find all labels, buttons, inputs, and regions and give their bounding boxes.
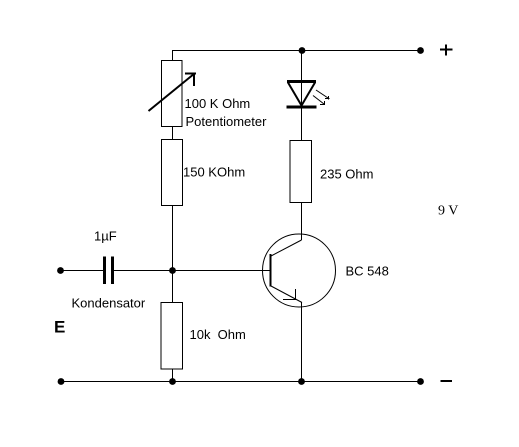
node junction 10k to bottom rail (169, 378, 176, 385)
svg-text:235 Ohm: 235 Ohm (320, 167, 373, 182)
potentiometer R1 wiper arrow (149, 74, 197, 112)
LED light arrow 2 (313, 96, 325, 105)
LED light arrow 1 (316, 90, 330, 100)
capacitor C1 left plate (103, 257, 106, 285)
transistor Q1 emitter arrowhead (283, 289, 296, 300)
wire potentiometer top stub (172, 51, 174, 62)
transistor Q1 collector stroke (271, 240, 302, 256)
transistor Q1 base bar (270, 254, 272, 287)
wire node B to 10k resistor (172, 270, 174, 303)
svg-text:Kondensator: Kondensator (72, 296, 146, 311)
svg-text:150 KOhm: 150 KOhm (183, 165, 245, 180)
wire 235 Ohm resistor to collector (301, 203, 303, 241)
potentiometer R1 100K body (162, 61, 183, 127)
wire LED branch from top rail (301, 51, 303, 109)
node bottom-left terminal (58, 378, 65, 385)
LED D1 anode bar (287, 80, 316, 83)
wire 10k resistor to bottom rail (172, 369, 174, 382)
node - terminal (417, 378, 424, 385)
svg-text:E: E (54, 318, 65, 337)
wire emitter to bottom rail (301, 302, 303, 382)
label 100 K Ohm Potentiometer (185, 96, 268, 129)
svg-text:Potentiometer: Potentiometer (186, 114, 268, 129)
svg-text:BC 548: BC 548 (346, 264, 389, 279)
wire top supply rail (172, 50, 421, 52)
svg-text:100 K Ohm: 100 K Ohm (185, 96, 251, 111)
wire potentiometer to 150K resistor (172, 126, 174, 140)
node junction top rail to LED (299, 47, 306, 54)
transistor Q1 BC548 body circle (263, 234, 336, 307)
node + terminal (417, 47, 424, 54)
plus symbol + supply (440, 44, 452, 55)
LED D1 triangle sides (288, 83, 315, 106)
LED D1 cathode bar (287, 106, 317, 109)
minus symbol - supply (441, 380, 452, 382)
wire LED cathode to 235 Ohm resistor (301, 109, 303, 142)
node junction emitter to bottom rail (298, 378, 305, 385)
resistor R4 235 Ohm body (290, 141, 312, 203)
wire capacitor to base node (114, 270, 270, 272)
node junction base / divider (169, 267, 176, 274)
resistor R3 10k Ohm body (161, 303, 183, 370)
transistor Q1 emitter stroke (271, 286, 302, 303)
resistor R2 150 KOhm body (162, 140, 183, 206)
wire 150K resistor to node B (172, 206, 174, 272)
svg-text:9 V: 9 V (438, 204, 458, 219)
node E input terminal (57, 267, 64, 274)
capacitor C1 right plate (111, 257, 114, 285)
svg-text:10k Ohm: 10k Ohm (190, 327, 246, 342)
wire input to capacitor (61, 270, 104, 272)
wire bottom supply rail (61, 381, 421, 383)
svg-text:1µF: 1µF (94, 229, 117, 244)
